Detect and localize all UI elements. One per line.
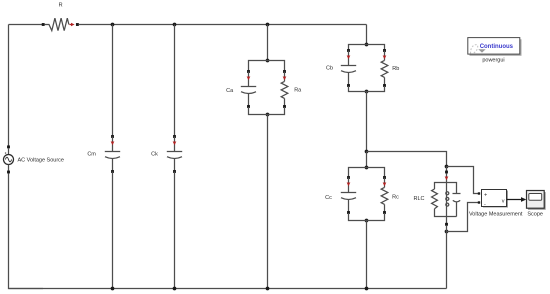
label Cc (325, 195, 332, 201)
svg-text:Voltage Measurement: Voltage Measurement (469, 212, 523, 218)
wire: to VM plus input (447, 167, 479, 194)
resistor R (42, 18, 79, 30)
node: Ca-Ra bottom rail junction (266, 113, 270, 117)
AC Voltage Source (4, 145, 14, 173)
wire: Ck lower drop (174, 172, 176, 289)
node: top bus / Cm junction (111, 23, 115, 27)
wire: Cb-Rb bottom rail (349, 86, 385, 92)
svg-text:Scope: Scope (527, 212, 543, 218)
wire: RLC junction to branch port (446, 167, 448, 173)
svg-text:Continuous: Continuous (480, 44, 514, 50)
capacitor Ck (167, 135, 182, 173)
node: Ca-Ra top rail junction (266, 59, 270, 63)
node: RLC bottom junction (445, 230, 449, 234)
label Rb (392, 66, 399, 72)
svg-text:powergui: powergui (482, 58, 504, 64)
signal wire VM to Scope (507, 197, 527, 202)
label Ck (151, 151, 158, 157)
node: Cc-Rc bottom rail junction (365, 219, 369, 223)
svg-text:RLC: RLC (413, 196, 424, 202)
wire: Ca-Ra bottom drop (267, 115, 269, 289)
wire: branch over to RLC column (367, 152, 447, 167)
wire: Cc-Rc bottom rail (349, 213, 385, 221)
wire: Cb-Rb top rail (349, 45, 385, 52)
label Scope (527, 212, 543, 218)
capacitor Cc (341, 176, 356, 214)
voltage measurement block (478, 190, 508, 208)
resistor Rc (381, 176, 388, 214)
node: bottom bus / Ck junction (173, 287, 177, 291)
wire: Cm upper drop (112, 25, 114, 137)
wire: RLC port to bottom junction (446, 226, 448, 232)
label Ra (294, 88, 302, 94)
node: Cb-Rb bottom rail junction (365, 90, 369, 94)
svg-text:R: R (59, 2, 63, 8)
wire: top bus right segment (79, 24, 367, 26)
wire: bottom bus (9, 288, 447, 290)
wire: Cc-Rc bottom drop (366, 221, 368, 289)
parallel RLC branch RLC (432, 171, 461, 226)
node: bottom bus / Cm junction (111, 287, 115, 291)
wire: Ck upper drop (174, 25, 176, 137)
resistor Rb (381, 49, 388, 87)
node: Cc-Rc top rail junction (365, 166, 369, 170)
wire: Cm lower drop (112, 172, 114, 289)
wire: left vertical upper (8, 25, 10, 148)
wire: Ca-Ra top rail (249, 61, 285, 72)
node: RLC top junction (445, 165, 449, 169)
label RLC (413, 196, 424, 202)
svg-text:Ra: Ra (294, 88, 302, 94)
wire: top bus left segment (9, 24, 44, 26)
wire: top bus corner down to Cb-Rb (366, 25, 368, 45)
svg-text:Cb: Cb (326, 66, 333, 72)
svg-text:Cc: Cc (325, 195, 332, 201)
wire: Ca-Ra top drop (267, 25, 269, 61)
label Rc (392, 195, 399, 201)
label powergui (482, 58, 504, 64)
capacitor Cm (105, 135, 120, 173)
wire: split node to Cc-Rc top (366, 152, 368, 168)
label Cb (326, 66, 333, 72)
wire: Cb-Rb down to split node (366, 92, 368, 152)
label Voltage Measurement (469, 212, 523, 218)
svg-text:v: v (502, 199, 505, 205)
wire: Ca-Ra bottom rail (249, 107, 285, 115)
wire: RLC bottom junction to bottom bus (446, 232, 448, 289)
wire: Cc-Rc top rail (349, 168, 385, 178)
capacitor Ca (241, 70, 256, 108)
scope block (527, 191, 546, 210)
node: top bus / Ck junction (173, 23, 177, 27)
svg-text:Rc: Rc (392, 195, 399, 201)
label AC Voltage Source (18, 157, 64, 163)
node: top bus / Ca-Ra junction (266, 23, 270, 27)
node: Cb-Rb top rail junction (365, 43, 369, 47)
label Cm (87, 151, 96, 157)
label R (59, 2, 63, 8)
wire: to VM minus input (447, 203, 479, 232)
label Ca (226, 88, 234, 94)
svg-text:AC Voltage Source: AC Voltage Source (18, 157, 64, 163)
wire: left vertical lower (9, 173, 44, 288)
svg-text:Rb: Rb (392, 66, 399, 72)
svg-text:-: - (484, 201, 486, 207)
node: bottom bus / Cc-Rc junction (365, 287, 369, 291)
node: bottom bus / Ca-Ra junction (266, 287, 270, 291)
svg-text:+: + (484, 193, 487, 199)
svg-text:Ca: Ca (226, 88, 234, 94)
powergui block (468, 38, 522, 56)
svg-text:Cm: Cm (87, 151, 96, 157)
capacitor Cb (341, 49, 356, 87)
resistor Ra (281, 70, 288, 108)
node: RLC branch split (365, 150, 369, 154)
svg-text:Ck: Ck (151, 151, 158, 157)
